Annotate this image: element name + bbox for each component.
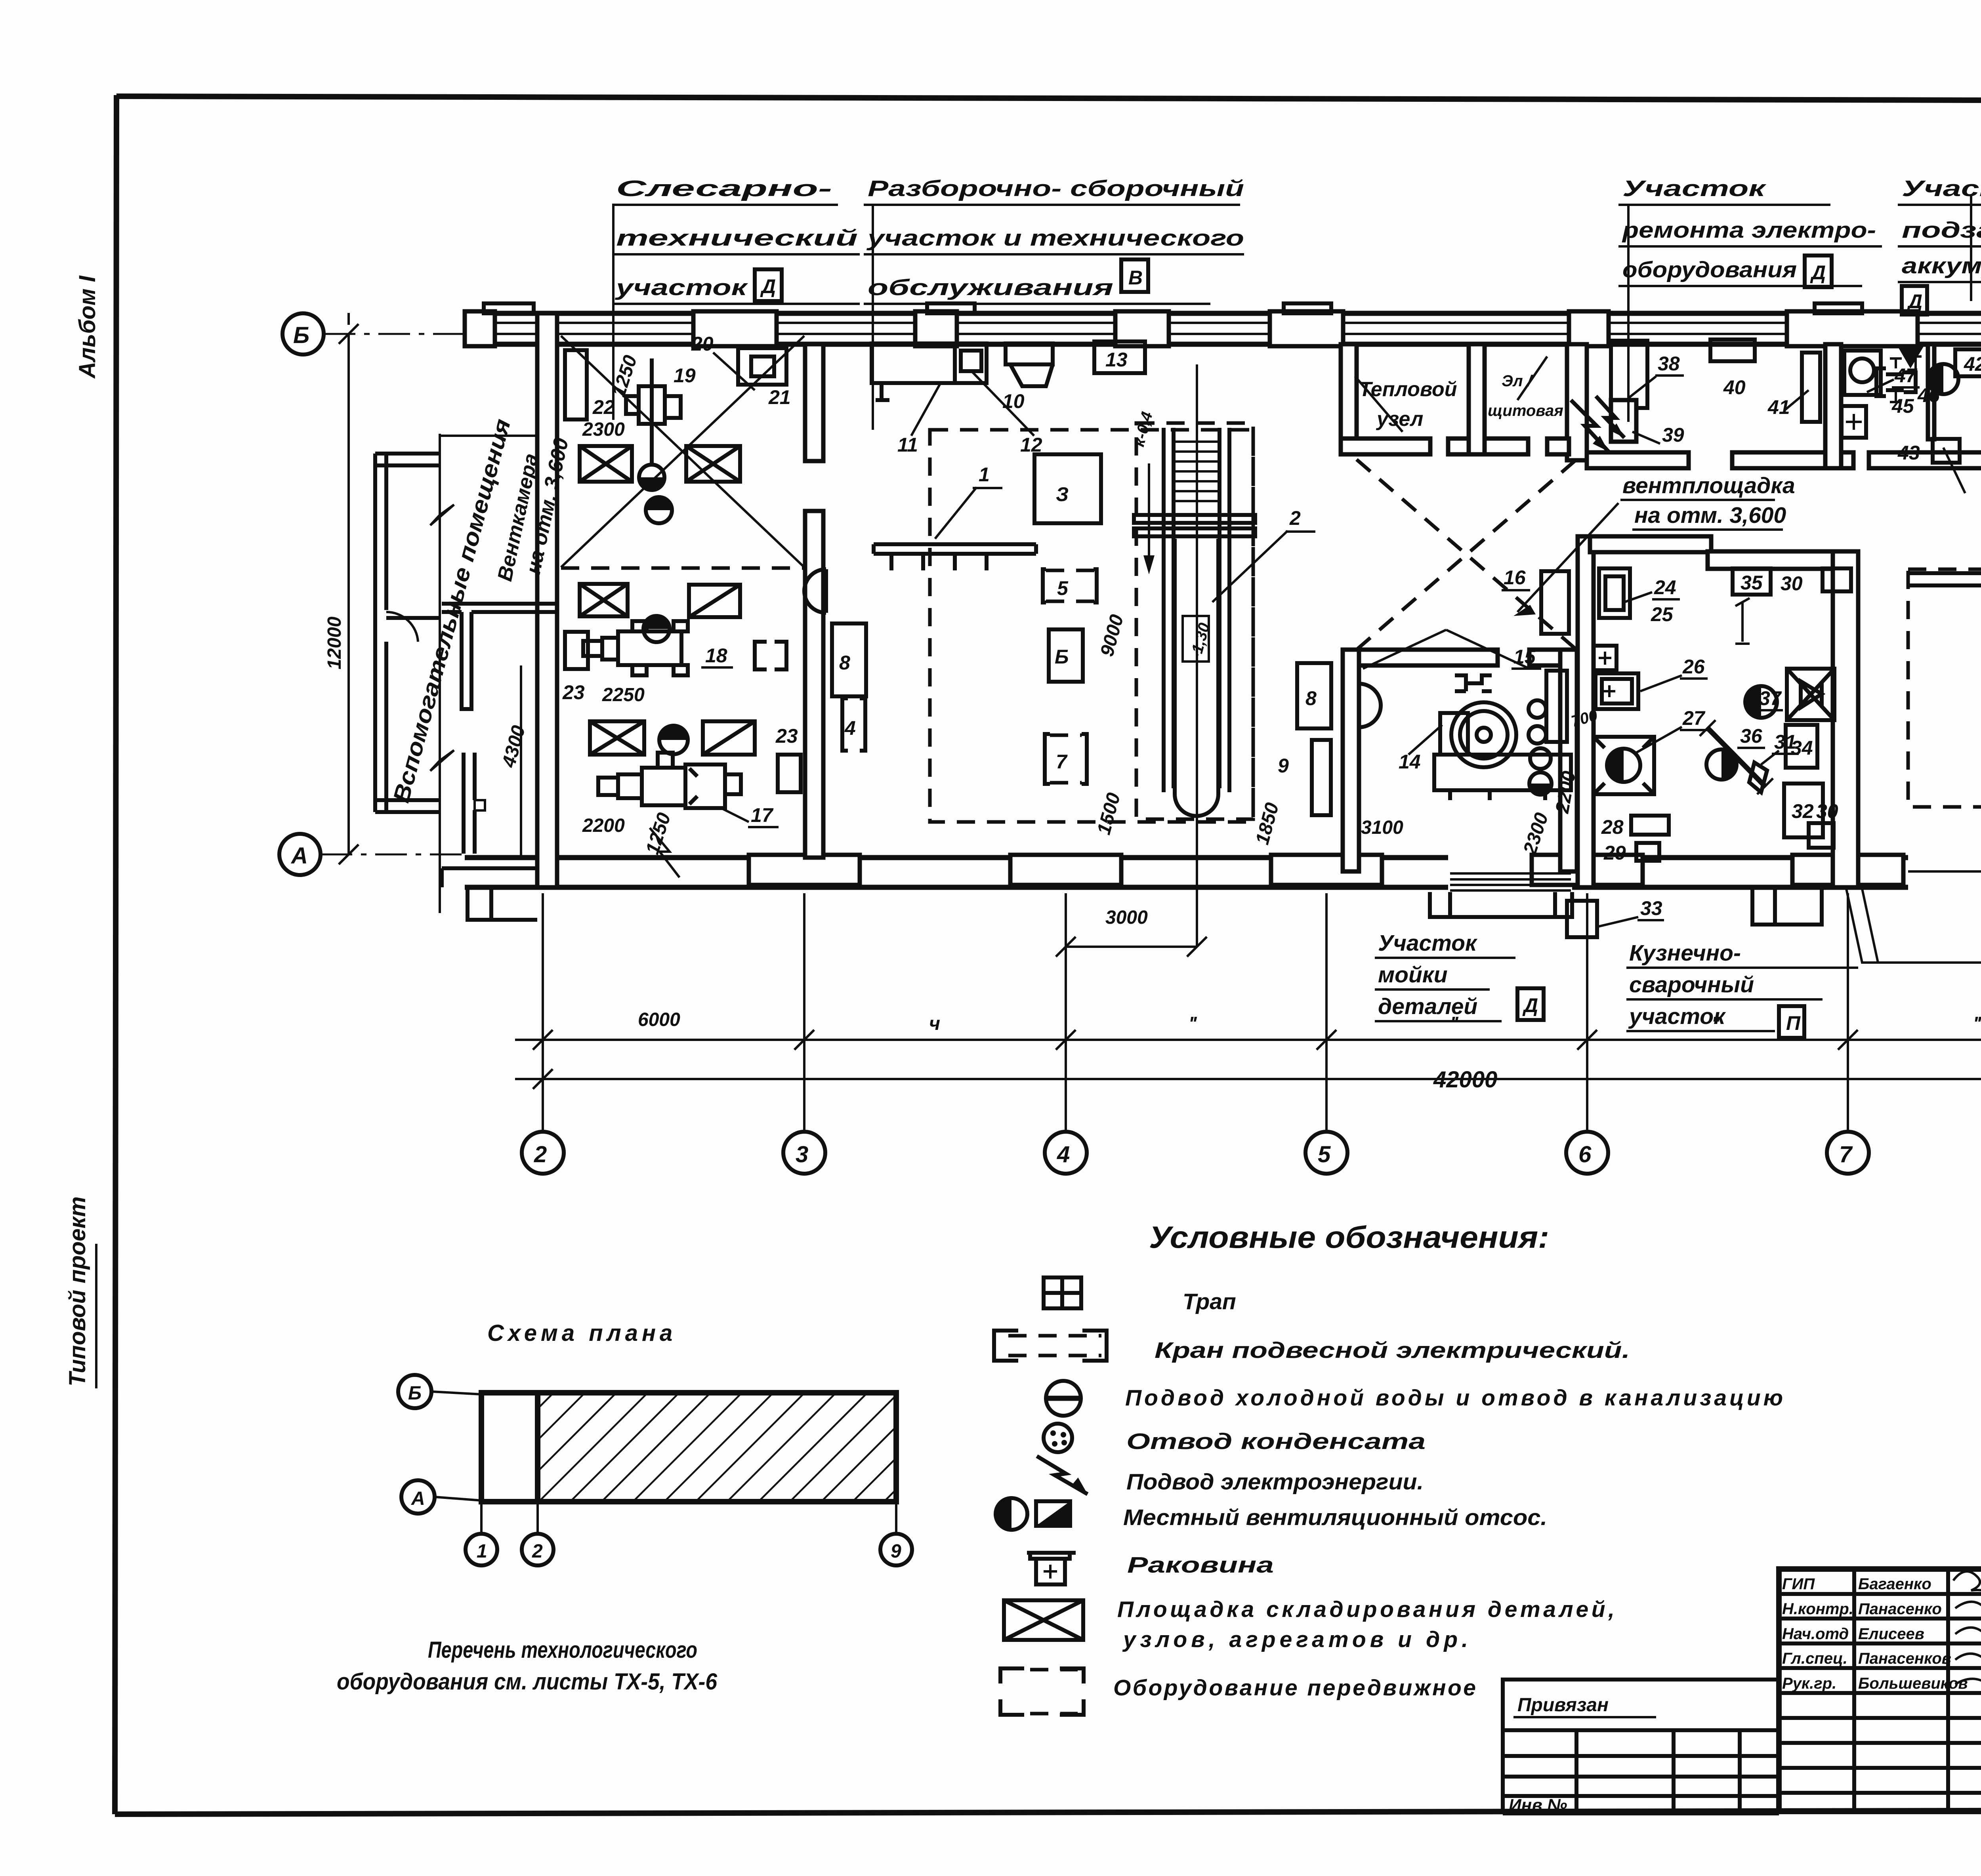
svg-text:Б: Б: [408, 1383, 422, 1404]
svg-text:Б: Б: [293, 322, 309, 348]
leader 20-21: [713, 353, 755, 390]
west annex break line: [430, 434, 454, 913]
item 30 box bottom: [1809, 823, 1834, 848]
privyazan box: [1503, 1680, 1779, 1730]
machine 19: [626, 358, 681, 490]
item 34: [1786, 725, 1817, 768]
vent platform cross left room: [561, 336, 804, 567]
annex top wall: [375, 452, 440, 456]
legend sink symbol: [1027, 1553, 1076, 1584]
svg-text:8: 8: [1305, 687, 1317, 709]
annex bottom wall: [375, 798, 440, 802]
svg-text:13: 13: [1105, 349, 1128, 371]
svg-text:28: 28: [1601, 816, 1624, 838]
legend condensate symbol: [1044, 1424, 1072, 1452]
bay dimension line: [515, 1039, 1981, 1041]
svg-text:4: 4: [1057, 1142, 1070, 1167]
wash room top wall: [1359, 650, 1498, 665]
gate sill stoyanka 1: [1908, 870, 1981, 873]
svg-text:35: 35: [1741, 572, 1763, 594]
south wall pilasters: [749, 855, 860, 885]
pit tongue: [1175, 539, 1218, 816]
item 6 box: [1049, 629, 1083, 682]
filled triangle top: [1898, 347, 1924, 368]
axis grid system: [279, 313, 468, 875]
svg-text:37: 37: [1759, 687, 1782, 709]
item 15: [1546, 671, 1567, 742]
stool circle 3: [659, 726, 688, 754]
item 32: [1784, 784, 1823, 837]
svg-text:40: 40: [1723, 376, 1746, 398]
svg-text:2250: 2250: [602, 684, 645, 705]
accumulator partition wall: [1928, 344, 1934, 439]
axis circle 2: [522, 1132, 564, 1174]
machine 17: [598, 753, 741, 808]
legend cold water symbol: [1046, 1381, 1081, 1416]
item 3 box: [1034, 454, 1101, 523]
axis circle B left: [282, 313, 324, 355]
schema rectangle: [481, 1393, 896, 1502]
svg-text:Перечень технологического: Перечень технологического: [428, 1637, 697, 1663]
item 26: [1595, 673, 1638, 709]
storage pad crossed 1: [580, 446, 632, 482]
svg-text:7: 7: [1839, 1142, 1853, 1167]
staff lower rows: [1779, 1716, 1981, 1720]
lightning to 39: [1596, 396, 1624, 438]
svg-text:43: 43: [1897, 442, 1920, 464]
svg-text:Большевиков: Большевиков: [1858, 1675, 1968, 1692]
svg-text:Панасенко: Панасенко: [1858, 1600, 1942, 1618]
privyazan table: [1503, 1728, 1779, 1732]
title block outer: [1779, 1569, 1981, 1811]
pit ladder rungs: [1174, 442, 1220, 501]
item 24-25: [1599, 568, 1630, 618]
svg-text:Эл /: Эл /: [1502, 372, 1533, 390]
axis line 7: [1847, 893, 1849, 1132]
item 29: [1636, 843, 1659, 861]
svg-text:6000: 6000: [638, 1009, 680, 1030]
small plus box: [1594, 646, 1616, 670]
svg-text:обслуживания: обслуживания: [868, 275, 1113, 300]
svg-text:36: 36: [1740, 725, 1763, 747]
svg-text:Трап: Трап: [1183, 1289, 1236, 1314]
bracket symbol: [755, 642, 786, 669]
svg-text:27: 27: [1682, 707, 1706, 729]
svg-text:З: З: [1056, 483, 1069, 505]
frame bottom border: [115, 1809, 1981, 1814]
wash machine 14: [1434, 675, 1571, 800]
svg-text:Гл.спец.: Гл.спец.: [1782, 1650, 1847, 1667]
svg-text:10: 10: [1002, 390, 1025, 412]
svg-text:А: А: [290, 843, 308, 869]
item 23 small rect left: [565, 632, 588, 669]
item 37 bench diagonal: [1708, 728, 1765, 786]
item 35 box: [1733, 568, 1771, 595]
axis line 6: [1586, 893, 1588, 1132]
vertical dimension line 12000: [347, 334, 350, 854]
interior wall A axis3 area upper: [805, 344, 823, 461]
axis line 4: [1065, 893, 1067, 1132]
item hourglass box: [1787, 669, 1834, 720]
left margin vertical labels: [65, 275, 100, 1388]
storage pad crossed 2: [686, 446, 740, 482]
svg-text:вентплощадка: вентплощадка: [1622, 473, 1795, 498]
svg-text:А: А: [411, 1488, 425, 1509]
axis extension line B: [347, 313, 350, 325]
item 27 forge: [1594, 737, 1654, 794]
svg-text:узлов, агрегатов и др.: узлов, агрегатов и др.: [1122, 1627, 1468, 1652]
svg-text:оборудования: оборудования: [1622, 257, 1797, 282]
svg-text:Д: Д: [1810, 261, 1826, 284]
axis circle 4: [1045, 1132, 1087, 1174]
svg-text:5: 5: [1318, 1142, 1331, 1167]
item 38: [1611, 341, 1647, 408]
item 33: [1567, 901, 1597, 937]
svg-text:участок и технического: участок и технического: [866, 225, 1244, 251]
switchboard room bottom wall: [1485, 438, 1528, 454]
svg-text:Участок: Участок: [1902, 176, 1981, 201]
svg-text:2200: 2200: [582, 815, 625, 836]
svg-text:Разборочно- сборочный: Разборочно- сборочный: [868, 176, 1244, 201]
svg-text:Елисеев: Елисеев: [1858, 1625, 1924, 1643]
vent platform dashed edge: [561, 566, 804, 570]
svg-text:В: В: [1128, 267, 1143, 289]
lightning mark: [650, 828, 679, 877]
wash room left wall: [1343, 650, 1359, 871]
item 36 vent circle: [1745, 686, 1777, 718]
axis line 5: [1325, 893, 1328, 1132]
svg-text:Участок: Участок: [1378, 930, 1478, 956]
svg-text:Н.контр.: Н.контр.: [1782, 1600, 1853, 1618]
item 9 cabinet: [1312, 740, 1331, 815]
svg-text:3000: 3000: [1105, 907, 1148, 928]
svg-text:Нач.отд: Нач.отд: [1782, 1625, 1849, 1643]
axis line 3: [803, 893, 805, 1132]
vent suction circle: [1929, 376, 1933, 380]
svg-text:3: 3: [796, 1142, 808, 1167]
item 42 label box: [1955, 349, 1981, 376]
wash room right wall: [1560, 650, 1577, 871]
svg-text:Кузнечно-: Кузнечно-: [1629, 940, 1741, 966]
top rooms bottom wall segments: [1587, 452, 1689, 468]
svg-text:Отвод конденсата: Отвод конденсата: [1126, 1429, 1426, 1454]
svg-text:2300: 2300: [1519, 810, 1553, 857]
item 1 bench: [874, 544, 1036, 570]
item 47 sink box: [1844, 351, 1881, 395]
heat unit room bottom wall: [1341, 438, 1430, 454]
svg-text:1: 1: [477, 1541, 487, 1562]
south wall inner line: [465, 855, 1448, 860]
svg-text:39: 39: [1662, 424, 1684, 446]
svg-text:9: 9: [891, 1541, 901, 1562]
item 5 dashed: [1043, 569, 1097, 602]
item 30 box top: [1823, 568, 1851, 591]
stool circle 1: [646, 497, 672, 523]
svg-text:15: 15: [1513, 646, 1536, 668]
north wall outer line: [465, 311, 1981, 316]
west wall axis 2: [537, 313, 557, 887]
svg-text:Раковина: Раковина: [1127, 1552, 1274, 1578]
svg-text:оборудования см. листы ТХ-: оборудования см. листы ТХ-5, ТХ-6: [337, 1669, 718, 1695]
diamond 31: [1749, 763, 1767, 792]
item 40: [1710, 339, 1755, 361]
wash gate ramp lines: [1450, 873, 1571, 890]
svg-text:1500: 1500: [1093, 791, 1124, 837]
svg-text:6: 6: [1578, 1142, 1592, 1167]
axis line 2: [542, 893, 544, 1132]
axis circle 7: [1827, 1132, 1869, 1174]
axis B dash-dot line: [324, 333, 468, 335]
svg-text:30: 30: [1781, 572, 1803, 595]
electro repair room right wall: [1825, 344, 1841, 468]
svg-text:мойки: мойки: [1378, 962, 1448, 988]
svg-text:Слесарно-: Слесарно-: [616, 176, 832, 201]
svg-text:32: 32: [1792, 800, 1814, 822]
schema axis circle A: [401, 1480, 435, 1514]
total dimension line 42000: [515, 1078, 1981, 1080]
svg-text:8: 8: [839, 652, 850, 674]
annex door quarter arc: [386, 612, 418, 642]
machine 18 lathe: [583, 621, 688, 675]
axis circle A left: [279, 834, 321, 875]
crane dashed rectangle: [930, 430, 1253, 822]
svg-text:Багаенко: Багаенко: [1858, 1575, 1931, 1593]
svg-text:на отм. 3,600: на отм. 3,600: [1634, 503, 1786, 528]
svg-text:ʺ: ʺ: [1189, 1013, 1198, 1034]
svg-text:33: 33: [1640, 897, 1662, 919]
legend trap symbol: [1044, 1277, 1081, 1308]
svg-text:2300: 2300: [582, 419, 625, 440]
svg-text:деталей: деталей: [1378, 994, 1477, 1019]
svg-text:2: 2: [534, 1142, 547, 1167]
lightning to room: [1571, 400, 1609, 452]
forge room top wall step1: [1590, 536, 1711, 552]
svg-text:технический: технический: [616, 225, 858, 251]
frame top border: [116, 96, 1981, 101]
legend electric supply symbol: [1037, 1456, 1088, 1494]
annex inner partition: [386, 616, 440, 620]
wash gate porch: [1430, 892, 1572, 917]
wash basin wall axis3: [804, 569, 826, 613]
svg-text:Подвод электроэнергии.: Подвод электроэнергии.: [1126, 1469, 1424, 1495]
svg-text:2: 2: [1289, 507, 1301, 529]
storage pad 6: [703, 721, 755, 755]
vehicle stall 1 dashed: [1908, 569, 1981, 807]
axis circle 5: [1305, 1132, 1347, 1174]
svg-text:42: 42: [1964, 353, 1981, 375]
svg-text:2: 2: [532, 1541, 543, 1562]
forge porch: [1752, 887, 1822, 925]
svg-text:участок: участок: [1628, 1004, 1726, 1029]
item plus box: [1842, 406, 1866, 438]
interior wall A axis3 area lower: [805, 511, 823, 858]
svg-text:Альбом I: Альбом I: [74, 275, 100, 379]
axis A dash-dot line: [321, 854, 468, 856]
svg-text:ГИП: ГИП: [1782, 1575, 1815, 1593]
svg-text:12000: 12000: [324, 616, 345, 669]
svg-text:участок: участок: [615, 275, 748, 300]
machine 21: [738, 348, 786, 385]
schema axis circle 1: [466, 1534, 497, 1565]
svg-text:42000: 42000: [1433, 1067, 1497, 1092]
svg-text:Рук.гр.: Рук.гр.: [1782, 1675, 1836, 1692]
svg-text:Участок: Участок: [1622, 176, 1767, 201]
svg-text:3100: 3100: [1361, 817, 1403, 838]
heat unit room right wall: [1469, 344, 1485, 454]
frame left border: [115, 95, 116, 1814]
item 16: [1541, 571, 1569, 634]
svg-text:34: 34: [1791, 737, 1813, 759]
window glazing lines north: [493, 323, 1981, 334]
svg-text:ʺ: ʺ: [1973, 1013, 1981, 1034]
svg-text:ремонта электро-: ремонта электро-: [1622, 217, 1876, 243]
svg-text:аккумуляторов: аккумуляторов: [1902, 253, 1981, 278]
svg-text:30: 30: [1816, 800, 1838, 822]
svg-text:Кран подвесной электрический: Кран подвесной электрический.: [1155, 1338, 1630, 1363]
vent platform dashed cross mid: [1357, 459, 1576, 650]
legend movable equipment symbol: [1000, 1668, 1084, 1715]
vent circle mid: [1706, 749, 1737, 780]
svg-text:Оборудование передвижное: Оборудование передвижное: [1113, 1675, 1476, 1701]
axis circle 3: [783, 1132, 825, 1174]
svg-text:7: 7: [1056, 751, 1068, 773]
item 8 cabinet right: [1297, 663, 1331, 728]
svg-text:Д: Д: [1907, 290, 1922, 313]
svg-text:20: 20: [691, 333, 714, 355]
west annex T wall: [442, 604, 559, 709]
svg-text:4300: 4300: [498, 723, 529, 770]
stool circle 2: [643, 616, 670, 642]
item 46 cluster: [1876, 368, 1916, 396]
svg-text:26: 26: [1682, 656, 1705, 678]
item 7 dashed: [1045, 734, 1087, 784]
svg-text:Схема плана: Схема плана: [487, 1320, 676, 1346]
forge room right wall: [1833, 551, 1858, 887]
staff columns: [1852, 1569, 1856, 1811]
staff rows horizontals: [1779, 1592, 1981, 1596]
switchboard room right wall: [1567, 344, 1587, 460]
svg-text:Типовой проект: Типовой проект: [65, 1196, 90, 1386]
svg-text:Привязан: Привязан: [1517, 1695, 1609, 1716]
south wall outer line: [465, 885, 1448, 890]
schema hatched part: [538, 1395, 894, 1500]
axis circle 6: [1566, 1132, 1608, 1174]
svg-text:Условные обозначения:: Условные обозначения:: [1149, 1220, 1549, 1254]
bench 11-12: [872, 343, 987, 400]
svg-text:1: 1: [979, 463, 990, 486]
item 43: [1933, 439, 1960, 463]
north wall pilaster bumps: [484, 303, 534, 313]
svg-text:Д: Д: [760, 275, 776, 297]
item 13 box: [1094, 341, 1145, 373]
svg-text:21: 21: [768, 386, 791, 408]
svg-text:Б: Б: [1055, 646, 1069, 668]
svg-text:9: 9: [1278, 755, 1289, 777]
svg-text:25: 25: [1651, 603, 1674, 625]
svg-text:17: 17: [751, 804, 774, 826]
legend local vent symbols: [996, 1498, 1027, 1530]
svg-text:Местный вентиляционный отсос: Местный вентиляционный отсос.: [1123, 1505, 1547, 1530]
svg-text:18: 18: [705, 644, 727, 667]
schema axis circle B: [398, 1375, 431, 1408]
svg-text:подзарядки: подзарядки: [1902, 217, 1981, 243]
svg-text:22: 22: [592, 396, 615, 418]
svg-text:Панасенков: Панасенков: [1858, 1650, 1951, 1667]
svg-text:Инв №: Инв №: [1509, 1796, 1567, 1815]
legend storage pad symbol: [1004, 1600, 1083, 1640]
svg-text:38: 38: [1658, 353, 1680, 375]
svg-text:ч: ч: [929, 1013, 940, 1034]
svg-text:4: 4: [844, 717, 856, 739]
svg-text:П: П: [1786, 1012, 1801, 1034]
pit inner level box: [1183, 616, 1209, 662]
svg-text:23: 23: [562, 681, 585, 703]
west annex lower wall stub: [464, 753, 475, 854]
svg-text:29: 29: [1603, 842, 1626, 864]
wash basin in wash room: [1359, 684, 1381, 727]
item 4 dashed: [842, 698, 865, 751]
item 41: [1802, 353, 1820, 422]
svg-text:19: 19: [674, 364, 696, 387]
annex west wall: [375, 454, 386, 812]
storage pad crossed 3: [580, 584, 628, 616]
item 23 right: [778, 755, 801, 792]
stoyanka apron line: [1846, 889, 1981, 963]
schema axis circle 2: [522, 1534, 553, 1565]
pit flow arrow: [1148, 463, 1150, 570]
heat unit room left wall: [1341, 344, 1357, 454]
pit rails: [1164, 428, 1229, 792]
svg-text:сварочный: сварочный: [1629, 972, 1754, 997]
svg-text:Д: Д: [1522, 994, 1538, 1016]
signature squiggles: [1953, 1571, 1981, 1596]
west annex top wall: [440, 435, 539, 437]
pit axis line: [1196, 364, 1198, 947]
svg-text:5: 5: [1057, 577, 1069, 599]
forge room top wall step2: [1708, 551, 1858, 569]
item 28: [1631, 816, 1669, 835]
storage pad 4: [689, 585, 740, 617]
svg-text:1250: 1250: [642, 810, 675, 857]
welding stand: [1735, 598, 1750, 644]
north wall piers: [465, 311, 495, 346]
svg-text:16: 16: [1504, 566, 1526, 589]
schema axis circle 9: [880, 1534, 912, 1565]
axis 6 wall: [1578, 536, 1594, 887]
item 10: [1006, 343, 1053, 386]
svg-text:Подвод холодной воды и отв: Подвод холодной воды и отвод в канализац…: [1125, 1385, 1783, 1411]
svg-text:23: 23: [775, 725, 798, 747]
north wall inner line: [465, 342, 1981, 347]
storage pad crossed 5: [590, 721, 644, 755]
svg-text:24: 24: [1654, 576, 1676, 599]
item 8 cabinet left: [832, 623, 866, 696]
svg-text:11: 11: [897, 434, 918, 456]
svg-text:Площадка складирования детал: Площадка складирования деталей,: [1117, 1597, 1615, 1622]
svg-text:щитовая: щитовая: [1488, 402, 1563, 419]
item 22: [565, 350, 587, 419]
west porch: [442, 868, 537, 920]
legend crane symbol: [994, 1331, 1107, 1361]
pit crossbars: [1134, 515, 1255, 523]
svg-text:1850: 1850: [1252, 801, 1283, 847]
inspection pit dashed outline: [1136, 423, 1253, 819]
svg-text:9000: 9000: [1096, 612, 1128, 659]
